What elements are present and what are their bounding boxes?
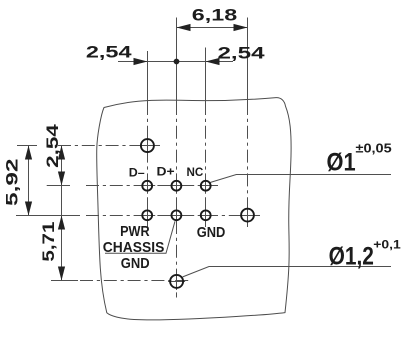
centerline col4 vertical dash-dot xyxy=(247,102,249,227)
dimension line 2,54 / 5,71 vertical (continuous) xyxy=(61,146,63,281)
leader NC hole to diameter note xyxy=(210,175,391,183)
center cross top hole xyxy=(139,145,156,147)
arrow 6,18 left xyxy=(177,24,191,31)
dimension line 2,54 / 2,54 top xyxy=(118,61,233,63)
extension line col3 (x=205.8) above plate xyxy=(205,48,207,103)
center cross PWR xyxy=(139,215,155,217)
arrow 2,54 vertical down xyxy=(58,172,65,186)
center cross NC xyxy=(198,185,214,187)
svg-text:GND: GND xyxy=(197,224,226,241)
dimension line 5,92 vertical xyxy=(28,146,30,216)
center cross D- xyxy=(139,185,155,187)
arrow 5,71 down xyxy=(58,267,65,281)
extension line col4 (x=247.6) above plate xyxy=(247,18,249,103)
hole PWR xyxy=(142,210,152,220)
svg-text:±0,05: ±0,05 xyxy=(356,141,392,156)
hole D- xyxy=(142,181,152,191)
bottom hole row: left extension tick xyxy=(51,280,78,282)
svg-text:2,54: 2,54 xyxy=(218,44,266,63)
arrow 6,18 right xyxy=(234,24,248,31)
bottom hole row: horizontal centerline dash-dot xyxy=(80,280,191,282)
hole D+ xyxy=(172,181,182,191)
hole CHASSIS GND xyxy=(172,210,182,220)
svg-text:D–: D– xyxy=(129,165,145,179)
svg-text:GND: GND xyxy=(121,255,150,272)
leader CHASSIS GND label underline + diagonal to hole xyxy=(105,221,175,253)
svg-text:6,18: 6,18 xyxy=(192,6,237,25)
top hole row: horizontal centerline dash-dot xyxy=(58,145,160,147)
arrow 2,54 top (tip x=147.6, pointing right) xyxy=(134,58,148,65)
svg-text:Ø1: Ø1 xyxy=(327,149,356,177)
top mounting hole xyxy=(141,139,154,152)
dimension line 6,18 xyxy=(177,27,248,29)
svg-text:2,54: 2,54 xyxy=(43,123,62,167)
svg-text:D+: D+ xyxy=(157,165,175,179)
shared dot at x=176.6 on 2,54 dimension xyxy=(174,59,180,65)
arrow 5,71 up xyxy=(58,216,65,230)
center cross D+ xyxy=(168,185,184,187)
bottom mounting hole xyxy=(170,275,183,288)
extension line col2 (x=176.2) above plate xyxy=(176,18,178,103)
arrow 2,54 vertical up xyxy=(58,146,65,160)
center cross CHASSIS GND hole xyxy=(168,215,184,217)
svg-text:5,92: 5,92 xyxy=(3,159,22,207)
svg-text:CHASSIS: CHASSIS xyxy=(103,239,165,256)
extension line col1 (x=147.6) above plate xyxy=(147,51,149,102)
row2 horizontal centerline dash-dot xyxy=(86,215,260,217)
arrow 2,54 top right (tip x=206.4, pointing left) xyxy=(206,58,220,65)
leader bottom hole to diameter note xyxy=(183,267,391,277)
holes xyxy=(141,139,254,288)
row1 horizontal centerline dash-dot xyxy=(86,185,220,187)
centerline col1 vertical dash-dot xyxy=(147,102,149,227)
svg-text:2,54: 2,54 xyxy=(86,43,132,62)
hole NC xyxy=(201,181,211,191)
svg-text:+0,1: +0,1 xyxy=(373,237,401,251)
top hole row: left extension tick xyxy=(17,145,37,147)
arrows xyxy=(25,24,248,281)
svg-text:Ø1,2: Ø1,2 xyxy=(329,243,374,271)
center cross bottom mounting hole xyxy=(168,281,185,283)
row2 (PWR/CHASSIS GND/GND): left extension tick xyxy=(16,215,80,217)
hole GND xyxy=(201,210,211,220)
arrow 5,92 up xyxy=(25,146,32,160)
arrow 5,92 down xyxy=(25,202,32,216)
center cross GND hole xyxy=(198,215,214,217)
centerline col3 vertical dash-dot xyxy=(205,102,207,227)
center cross right mounting hole xyxy=(239,215,256,217)
row1 (D-/D+/NC): left extension tick xyxy=(47,185,70,187)
right mounting hole xyxy=(241,209,254,222)
centerline col2 vertical dash-dot xyxy=(176,102,178,298)
svg-text:5,71: 5,71 xyxy=(39,222,58,262)
plate outline (broken-out section of panel) xyxy=(97,98,291,320)
svg-text:PWR: PWR xyxy=(120,223,150,240)
svg-text:NC: NC xyxy=(187,165,204,179)
